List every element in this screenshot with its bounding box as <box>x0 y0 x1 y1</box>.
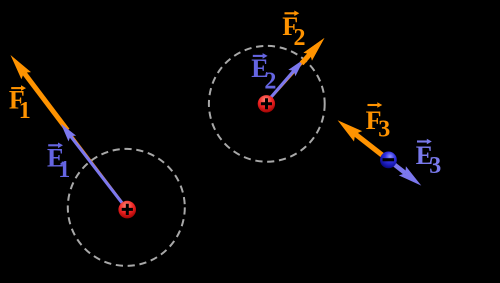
field vector E3 (blue arrow) <box>394 165 421 186</box>
field vector E2 (blue arrow) <box>266 59 304 103</box>
svg-text:2: 2 <box>264 69 276 95</box>
negative charge q3 (blue sphere with minus) <box>380 152 397 169</box>
svg-text:1: 1 <box>58 157 70 183</box>
svg-text:2: 2 <box>294 25 306 51</box>
label F3 <box>366 102 391 142</box>
force vector F2 arrowhead redrawn on top <box>302 38 325 64</box>
label E3 <box>416 139 442 179</box>
force vector F3 (orange arrow) <box>338 120 383 155</box>
field vector E1 (blue arrow) <box>61 124 127 209</box>
force vector F2 (orange arrow) <box>267 38 325 103</box>
dashed circle around charge q1 <box>68 149 185 266</box>
label F2 <box>282 11 305 51</box>
dashed circle around charge q2 <box>209 46 325 162</box>
positive charge q1 (red sphere with plus) <box>118 201 136 219</box>
label F1 <box>9 85 31 124</box>
positive charge q2 (red sphere with plus) <box>258 95 275 112</box>
force vector F1 (orange arrow) <box>11 55 128 209</box>
svg-text:3: 3 <box>429 153 441 179</box>
svg-text:1: 1 <box>19 98 31 124</box>
label E1 <box>47 143 70 183</box>
svg-text:3: 3 <box>378 116 390 142</box>
label E2 <box>251 53 276 95</box>
